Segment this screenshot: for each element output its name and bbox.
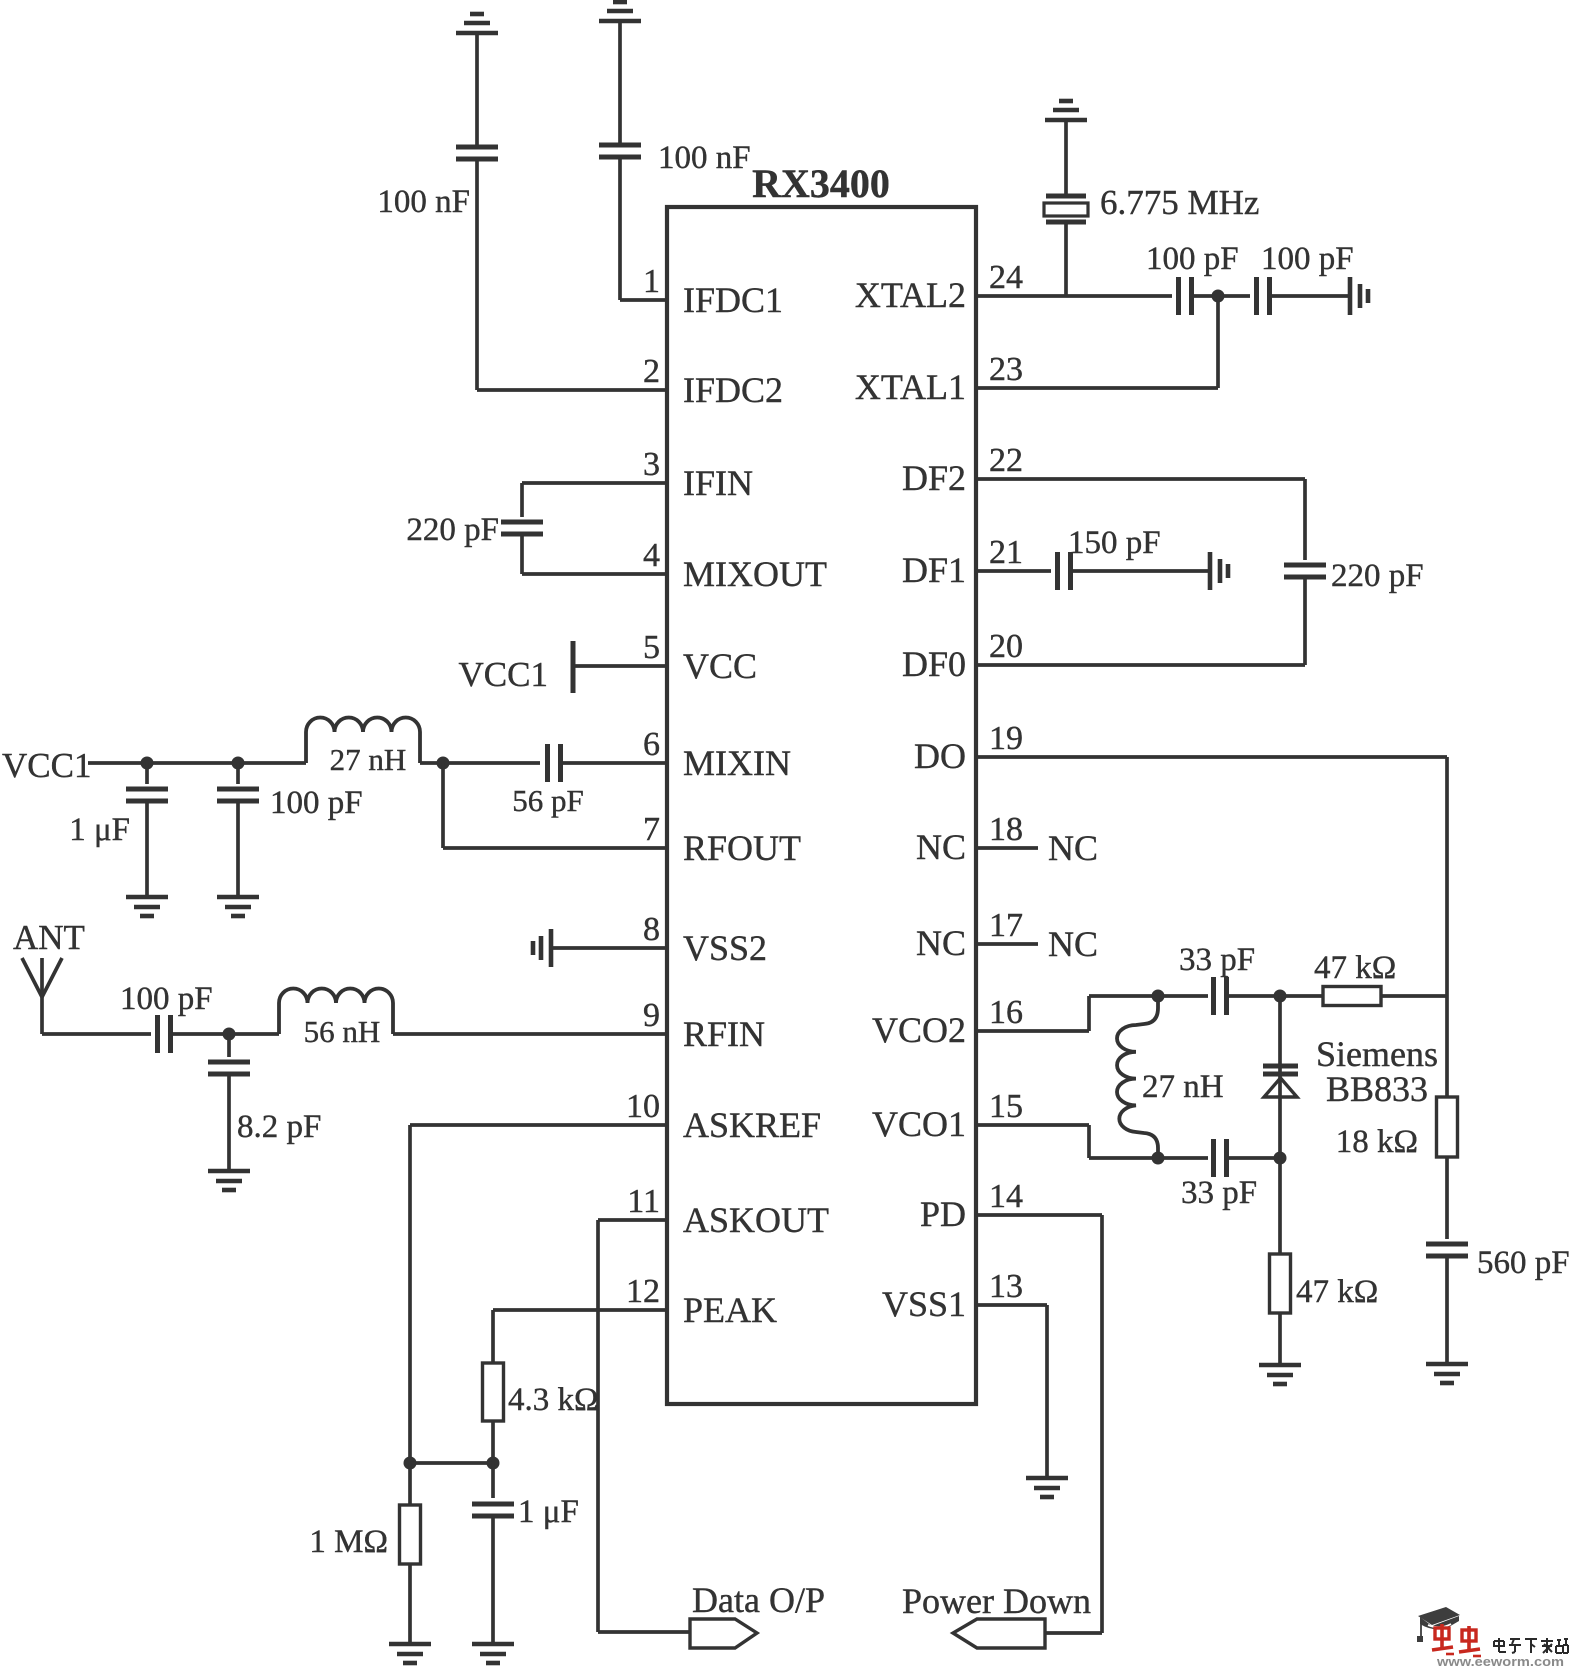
- svg-text:47 kΩ: 47 kΩ: [1296, 1274, 1378, 1310]
- wire pin 23 XTAL1: [976, 386, 1218, 390]
- wire pin 15 VCO1: [976, 1123, 1089, 1127]
- label VCC1 at pin 5: [459, 655, 548, 694]
- svg-text:MIXOUT: MIXOUT: [683, 554, 827, 594]
- wire DF2 down to C12: [1303, 479, 1307, 560]
- wire node down to RFOUT: [441, 763, 445, 848]
- label ANT: [13, 918, 85, 957]
- label BB833 for D1: [1326, 1069, 1428, 1109]
- wire C13 to ground: [1071, 569, 1210, 573]
- pin number 15: [989, 1088, 1023, 1125]
- pin name ASKOUT (pin 11): [683, 1200, 829, 1240]
- svg-text:16: 16: [989, 994, 1023, 1031]
- svg-text:1 μF: 1 μF: [69, 812, 130, 848]
- wire C6 to ground: [236, 802, 240, 897]
- svg-text:10: 10: [626, 1088, 660, 1125]
- wire node down to R4: [1278, 1158, 1282, 1254]
- svg-text:4.3 kΩ: 4.3 kΩ: [508, 1382, 599, 1418]
- pin number 7: [643, 811, 660, 848]
- svg-text:23: 23: [989, 351, 1023, 388]
- svg-text:100 pF: 100 pF: [1261, 241, 1354, 277]
- label 100 pF for C6: [270, 785, 363, 821]
- svg-text:21: 21: [989, 534, 1023, 571]
- wire L1 to node: [420, 761, 540, 765]
- wire R3 to DO line: [1381, 994, 1447, 998]
- wire L2 to pin 9 RFIN: [393, 1032, 667, 1036]
- inductor L1 27 nH: [306, 718, 420, 764]
- wire VCC1 bar to pin 5 VCC: [573, 664, 667, 668]
- label Data O/P: [692, 1580, 825, 1620]
- junction node under R1: [487, 1457, 500, 1470]
- junction node XTAL1/XTAL2: [1212, 290, 1225, 303]
- wire pin 13 VSS1: [976, 1303, 1047, 1307]
- pin number 1: [643, 263, 660, 300]
- svg-text:RFOUT: RFOUT: [683, 828, 801, 868]
- net label NC pin 18: [1048, 828, 1098, 868]
- svg-text:14: 14: [989, 1178, 1023, 1215]
- crystal Y1 6.775 MHz: [1044, 196, 1088, 222]
- wire pin 20 DF0: [976, 663, 1305, 667]
- svg-text:220 pF: 220 pF: [406, 512, 499, 548]
- pin number 23: [989, 351, 1023, 388]
- resistor R5 18 kOhm: [1437, 1097, 1458, 1157]
- ground below C9: [472, 1644, 514, 1663]
- wire crystal to pin 24 line: [1064, 223, 1068, 296]
- pin name PEAK (pin 12): [683, 1290, 777, 1330]
- svg-text:11: 11: [627, 1183, 660, 1220]
- wire pin 14 PD: [976, 1213, 1102, 1217]
- svg-text:PD: PD: [920, 1194, 966, 1234]
- wire VCO1 jog down: [1087, 1125, 1091, 1158]
- wire node to C5: [145, 763, 149, 784]
- label 100 nF for C1: [377, 184, 470, 220]
- wire C1 down to pin 2 level: [475, 160, 479, 390]
- svg-text:5: 5: [643, 629, 660, 666]
- input tag Power Down: [953, 1619, 1045, 1648]
- svg-text:BB833: BB833: [1326, 1069, 1428, 1109]
- wire R1 to node: [491, 1421, 495, 1463]
- svg-text:ASKOUT: ASKOUT: [683, 1200, 829, 1240]
- svg-text:DF0: DF0: [902, 644, 966, 684]
- wire C4 to pin 6 MIXIN: [561, 761, 667, 765]
- svg-text:560 pF: 560 pF: [1477, 1245, 1569, 1281]
- wire C11 to ground: [1270, 294, 1350, 298]
- pin number 3: [643, 446, 660, 483]
- wire to Power Down tag: [1045, 1631, 1102, 1635]
- capacitor C14 33 pF (VCO2): [1214, 977, 1227, 1015]
- wire C10 to C11: [1192, 294, 1250, 298]
- wire pin 10 ASKREF: [410, 1123, 667, 1127]
- junction node under ASKREF: [404, 1457, 417, 1470]
- pin name IFIN (pin 3): [683, 463, 753, 503]
- capacitor C4 56 pF (MIXIN): [548, 744, 561, 782]
- label 100 pF for C7: [120, 981, 213, 1017]
- svg-text:27 nH: 27 nH: [330, 742, 407, 777]
- junction node at 8.2pF: [223, 1028, 236, 1041]
- stub pin 17 NC: [976, 942, 1038, 946]
- IC U1 RX3400 body outline: [667, 207, 976, 1404]
- capacitor C8 8.2 pF (RFIN shunt): [208, 1062, 250, 1074]
- svg-text:VCC: VCC: [683, 646, 757, 686]
- resistor R2 1 MOhm: [400, 1505, 421, 1564]
- svg-text:VCC1: VCC1: [459, 655, 548, 694]
- junction node top of L3: [1152, 990, 1165, 1003]
- capacitor C10 100 pF (XTAL2): [1179, 277, 1192, 315]
- wire VCO2 jog up: [1087, 996, 1091, 1031]
- pin number 16: [989, 994, 1023, 1031]
- label Siemens for D1: [1316, 1034, 1438, 1074]
- pin number 12: [626, 1273, 660, 1310]
- label 150 pF for C13: [1068, 525, 1161, 561]
- wire pin 11 ASKOUT: [598, 1218, 667, 1222]
- wire C7 to L2: [171, 1032, 279, 1036]
- svg-text:18 kΩ: 18 kΩ: [1336, 1124, 1418, 1160]
- svg-text:9: 9: [643, 997, 660, 1034]
- pin number 14: [989, 1178, 1023, 1215]
- pin name RFOUT (pin 7): [683, 828, 801, 868]
- svg-text:4: 4: [643, 537, 660, 574]
- label 33 pF for C15: [1181, 1175, 1257, 1211]
- label 18 kOhm for R5: [1336, 1124, 1418, 1160]
- wire pin 22 DF2: [976, 477, 1305, 481]
- svg-text:7: 7: [643, 811, 660, 848]
- junction node MIXIN/RFOUT: [437, 757, 450, 770]
- pin number 13: [989, 1268, 1023, 1305]
- wire node down to C8: [227, 1034, 231, 1057]
- wire PD down: [1100, 1215, 1104, 1633]
- wire to pin 1 IFDC1: [620, 298, 667, 302]
- svg-text:56 pF: 56 pF: [512, 783, 584, 818]
- svg-text:RX3400: RX3400: [752, 161, 890, 206]
- capacitor C15 33 pF (VCO1): [1214, 1139, 1227, 1177]
- svg-text:6: 6: [643, 726, 660, 763]
- ground above C2: [599, 2, 641, 21]
- ground right of C13: [1210, 552, 1228, 590]
- pin name XTAL1 (pin 23): [855, 367, 966, 407]
- junction node top of varactor: [1274, 990, 1287, 1003]
- ground below C16: [1426, 1364, 1468, 1383]
- antenna symbol: [22, 958, 62, 997]
- wire to Data O/P tag: [598, 1630, 690, 1634]
- svg-text:VCC1: VCC1: [2, 746, 91, 785]
- svg-text:XTAL1: XTAL1: [855, 367, 966, 407]
- wire ground to C1: [475, 33, 479, 146]
- label 1 MOhm for R2: [309, 1524, 388, 1560]
- svg-text:DO: DO: [914, 736, 966, 776]
- resistor R1 4.3 kOhm: [483, 1363, 504, 1421]
- pin number 20: [989, 628, 1023, 665]
- svg-text:100 pF: 100 pF: [1146, 241, 1239, 277]
- label 4.3 kOhm for R1: [508, 1382, 599, 1418]
- label 27 nH for L1: [330, 742, 407, 777]
- net label VCC1 left rail: [2, 746, 91, 785]
- label 1 uF for C9: [518, 1494, 579, 1530]
- wire node to C6: [236, 763, 240, 784]
- svg-text:220 pF: 220 pF: [1331, 558, 1424, 594]
- svg-text:NC: NC: [916, 827, 966, 867]
- wire C12 to DF0 level: [1303, 578, 1307, 665]
- svg-text:IFDC1: IFDC1: [683, 280, 783, 320]
- svg-text:XTAL2: XTAL2: [855, 275, 966, 315]
- wire node to C9: [491, 1463, 495, 1498]
- pin number 8: [643, 911, 660, 948]
- wire pin 19 DO: [976, 755, 1447, 759]
- capacitor C1 100 nF (IFDC2): [456, 147, 498, 159]
- wire pin 21 DF1: [976, 569, 1051, 573]
- svg-text:100 nF: 100 nF: [377, 184, 470, 220]
- svg-text:ASKREF: ASKREF: [683, 1105, 821, 1145]
- svg-text:6.775 MHz: 6.775 MHz: [1100, 183, 1259, 222]
- ground below VSS1: [1026, 1478, 1068, 1497]
- pin name IFDC2 (pin 2): [683, 370, 783, 410]
- label 33 pF for C14: [1179, 942, 1255, 978]
- wire R5 to C16: [1445, 1157, 1449, 1239]
- wire ASKOUT down: [596, 1220, 600, 1632]
- wire pin 16 VCO2: [976, 1029, 1089, 1033]
- capacitor C12 220 pF (DF2-DF0): [1284, 565, 1326, 577]
- capacitor C11 100 pF (XTAL): [1257, 277, 1270, 315]
- junction node bottom of varactor: [1274, 1152, 1287, 1165]
- wire ground to pin 8 VSS2: [551, 946, 667, 950]
- pin number 10: [626, 1088, 660, 1125]
- capacitor C7 100 pF (RFIN series): [158, 1015, 171, 1053]
- watermark url www.eeworm.com: [1436, 1655, 1564, 1667]
- wire to pin 2 IFDC2: [477, 388, 667, 392]
- label 100 nF for C2: [658, 140, 751, 176]
- pin name NC (pin 17): [916, 923, 966, 963]
- pin name NC (pin 18): [916, 827, 966, 867]
- pin name VSS2 (pin 8): [683, 928, 767, 968]
- svg-text:1 μF: 1 μF: [518, 1494, 579, 1530]
- label 8.2 pF for C8: [237, 1109, 321, 1145]
- svg-text:8: 8: [643, 911, 660, 948]
- wire down from pin 3: [520, 483, 524, 517]
- capacitor C5 1 uF (VCC1 bypass): [126, 789, 168, 801]
- label 1 uF for C5: [69, 812, 130, 848]
- svg-text:47 kΩ: 47 kΩ: [1314, 950, 1396, 986]
- wire R2 to ground: [408, 1564, 412, 1644]
- ground below C8: [208, 1171, 250, 1190]
- svg-text:8.2 pF: 8.2 pF: [237, 1109, 321, 1145]
- svg-text:33 pF: 33 pF: [1179, 942, 1255, 978]
- svg-text:NC: NC: [916, 923, 966, 963]
- pin number 18: [989, 811, 1023, 848]
- label 100 pF for C11: [1261, 241, 1354, 277]
- resistor R3 47 kOhm: [1323, 987, 1381, 1006]
- svg-text:IFIN: IFIN: [683, 463, 753, 503]
- label 220 pF for C3: [406, 512, 499, 548]
- svg-text:12: 12: [626, 1273, 660, 1310]
- wire VCO2 to top node: [1089, 994, 1208, 998]
- wire between bottom nodes: [410, 1461, 493, 1465]
- svg-text:VSS2: VSS2: [683, 928, 767, 968]
- svg-text:13: 13: [989, 1268, 1023, 1305]
- svg-text:DF2: DF2: [902, 458, 966, 498]
- watermark text chongchong: [1432, 1624, 1481, 1656]
- wire node to R2: [408, 1463, 412, 1505]
- wire C3 to pin 4 level: [520, 535, 524, 574]
- net label NC pin 17: [1048, 924, 1098, 964]
- capacitor C6 100 pF (VCC1 bypass): [217, 789, 259, 801]
- label 56 pF for C4: [512, 783, 584, 818]
- svg-text:19: 19: [989, 720, 1023, 757]
- capacitor C13 150 pF (DF1): [1058, 552, 1071, 590]
- svg-text:DF1: DF1: [902, 550, 966, 590]
- capacitor C9 1 uF (PEAK): [472, 1504, 514, 1516]
- wire VSS1 down to ground: [1045, 1305, 1049, 1478]
- wire antenna to C7: [42, 1032, 151, 1036]
- wire DO down to VCO node: [1445, 757, 1449, 996]
- svg-text:ANT: ANT: [13, 918, 85, 957]
- antenna stem: [40, 997, 44, 1034]
- wire node to R3: [1280, 994, 1323, 998]
- pin number 19: [989, 720, 1023, 757]
- pin name XTAL2 (pin 24): [855, 275, 966, 315]
- ground above C1: [456, 14, 498, 33]
- svg-text:33 pF: 33 pF: [1181, 1175, 1257, 1211]
- stub pin 18 NC: [976, 846, 1038, 850]
- svg-text:1 MΩ: 1 MΩ: [309, 1524, 388, 1560]
- pin number 6: [643, 726, 660, 763]
- ground at pin 8 VSS2: [533, 929, 551, 967]
- label 560 pF for C16: [1477, 1245, 1569, 1281]
- inductor L2 56 nH: [279, 989, 393, 1034]
- ground below C6: [217, 897, 259, 916]
- pin name PD (pin 14): [920, 1194, 966, 1234]
- junction node at 100pF cap: [232, 757, 245, 770]
- wire VCO1 to bottom node: [1089, 1156, 1208, 1160]
- svg-text:18: 18: [989, 811, 1023, 848]
- svg-text:RFIN: RFIN: [683, 1014, 765, 1054]
- svg-text:100 pF: 100 pF: [270, 785, 363, 821]
- output tag Data O/P: [690, 1619, 757, 1648]
- wire pin 24 XTAL2: [976, 294, 1172, 298]
- wire C14 to node: [1227, 994, 1280, 998]
- svg-text:Power Down: Power Down: [902, 1581, 1091, 1621]
- pin name VCO2 (pin 16): [872, 1010, 966, 1050]
- pin number 22: [989, 442, 1023, 479]
- svg-text:Data O/P: Data O/P: [692, 1580, 825, 1620]
- watermark text dianzi xiazaizhan: [1494, 1638, 1568, 1653]
- ground above crystal: [1045, 101, 1087, 120]
- IC part number label RX3400: [752, 161, 890, 206]
- svg-text:56 nH: 56 nH: [304, 1014, 381, 1049]
- wire C15 to node: [1227, 1156, 1280, 1160]
- capacitor C2 100 nF (IFDC1): [599, 145, 641, 157]
- wire ground to crystal: [1064, 120, 1068, 194]
- ground right of C11: [1350, 277, 1368, 315]
- label 47 kOhm for R4: [1296, 1274, 1378, 1310]
- svg-text:3: 3: [643, 446, 660, 483]
- pin number 17: [989, 907, 1023, 944]
- svg-text:100 pF: 100 pF: [120, 981, 213, 1017]
- wire C9 to ground: [491, 1517, 495, 1644]
- svg-text:IFDC2: IFDC2: [683, 370, 783, 410]
- junction node bottom of L3: [1152, 1152, 1165, 1165]
- pin number 9: [643, 997, 660, 1034]
- wire ground to C2: [618, 21, 622, 144]
- ground below R4: [1259, 1365, 1301, 1384]
- wire ASKREF down to node: [408, 1125, 412, 1463]
- resistor R4 47 kOhm: [1270, 1254, 1291, 1313]
- label 220 pF for C12: [1331, 558, 1424, 594]
- pin name DO (pin 19): [914, 736, 966, 776]
- label 47 kOhm for R3: [1314, 950, 1396, 986]
- label 100 pF for C10: [1146, 241, 1239, 277]
- svg-text:17: 17: [989, 907, 1023, 944]
- pin name IFDC1 (pin 1): [683, 280, 783, 320]
- label 27 nH for L3: [1142, 1069, 1224, 1105]
- label Power Down: [902, 1581, 1091, 1621]
- inductor L3 27 nH (VCO tank): [1117, 996, 1158, 1158]
- wire PEAK down to R1: [491, 1310, 495, 1363]
- svg-text:VSS1: VSS1: [882, 1284, 966, 1324]
- pin number 4: [643, 537, 660, 574]
- wire C8 to ground: [227, 1075, 231, 1171]
- svg-text:150 pF: 150 pF: [1068, 525, 1161, 561]
- wire C16 to ground: [1445, 1257, 1449, 1364]
- pin name DF1 (pin 21): [902, 550, 966, 590]
- wire DO node down to R5: [1445, 996, 1449, 1097]
- svg-text:22: 22: [989, 442, 1023, 479]
- pin number 5: [643, 629, 660, 666]
- wire R4 to ground: [1278, 1313, 1282, 1365]
- svg-text:PEAK: PEAK: [683, 1290, 777, 1330]
- wire node to varactor D1: [1278, 996, 1282, 1158]
- svg-text:NC: NC: [1048, 924, 1098, 964]
- label 56 nH for L2: [304, 1014, 381, 1049]
- pin number 24: [989, 259, 1023, 296]
- svg-text:100 nF: 100 nF: [658, 140, 751, 176]
- svg-text:2: 2: [643, 353, 660, 390]
- pin name MIXOUT (pin 4): [683, 554, 827, 594]
- wire C5 to ground: [145, 802, 149, 897]
- svg-text:MIXIN: MIXIN: [683, 743, 791, 783]
- wire pin 3 IFIN: [522, 481, 667, 485]
- wire pin 12 PEAK: [493, 1308, 667, 1312]
- pin name DF0 (pin 20): [902, 644, 966, 684]
- pin name VCO1 (pin 15): [872, 1104, 966, 1144]
- svg-text:1: 1: [643, 263, 660, 300]
- pin name RFIN (pin 9): [683, 1014, 765, 1054]
- watermark graduation-cap logo: [1417, 1607, 1460, 1642]
- pin name VCC (pin 5): [683, 646, 757, 686]
- svg-text:VCO1: VCO1: [872, 1104, 966, 1144]
- capacitor C16 560 pF: [1426, 1244, 1468, 1256]
- pin name MIXIN (pin 6): [683, 743, 791, 783]
- svg-text:NC: NC: [1048, 828, 1098, 868]
- svg-text:27 nH: 27 nH: [1142, 1069, 1224, 1105]
- label 6.775 MHz for Y1: [1100, 183, 1259, 222]
- pin number 2: [643, 353, 660, 390]
- pin number 21: [989, 534, 1023, 571]
- svg-text:Siemens: Siemens: [1316, 1034, 1438, 1074]
- svg-text:VCO2: VCO2: [872, 1010, 966, 1050]
- wire VCC1 rail: [88, 761, 306, 765]
- svg-text:24: 24: [989, 259, 1023, 296]
- power rail VCC1 bar at pin 5: [571, 641, 576, 693]
- pin name VSS1 (pin 13): [882, 1284, 966, 1324]
- pin name DF2 (pin 22): [902, 458, 966, 498]
- ground below C5: [126, 897, 168, 916]
- svg-text:20: 20: [989, 628, 1023, 665]
- varactor diode D1 Siemens BB833: [1263, 1066, 1298, 1097]
- svg-text:www.eeworm.com: www.eeworm.com: [1436, 1655, 1564, 1667]
- wire to pin 4 MIXOUT: [522, 572, 667, 576]
- pin name ASKREF (pin 10): [683, 1105, 821, 1145]
- pin number 11: [627, 1183, 660, 1220]
- wire node down to XTAL1: [1216, 296, 1220, 388]
- wire to pin 7 RFOUT: [443, 846, 667, 850]
